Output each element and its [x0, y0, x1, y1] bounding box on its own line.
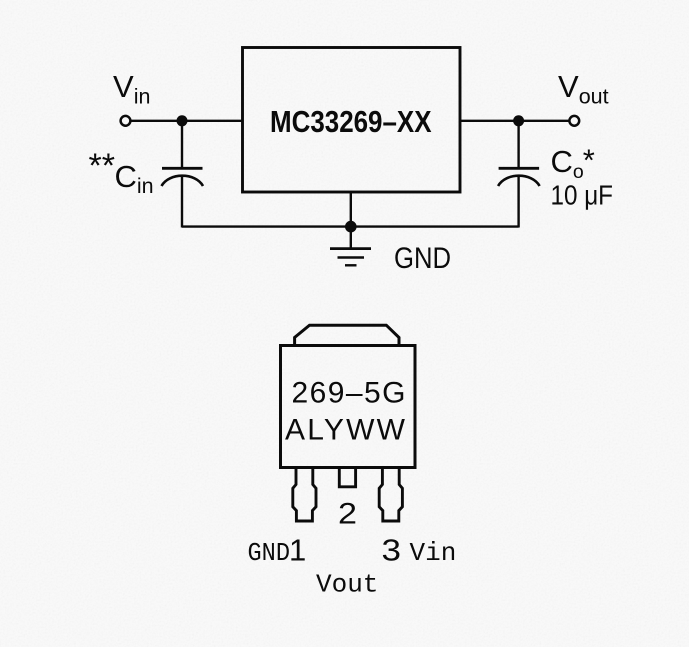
svg-text:1: 1	[289, 533, 306, 568]
wire regulator ground pin down	[350, 192, 352, 228]
svg-text:GND: GND	[248, 538, 291, 568]
node Vin input terminal	[121, 116, 131, 126]
wire Co to ground rail	[517, 176, 519, 228]
wire ground node to ground symbol	[350, 227, 352, 248]
svg-text:Vin: Vin	[410, 538, 457, 568]
svg-text:3: 3	[382, 533, 402, 568]
junction ground node	[345, 221, 357, 233]
junction input node	[177, 115, 188, 126]
wire Cin to ground rail	[181, 176, 183, 228]
junction output node	[513, 115, 524, 126]
pin 2 lead Vout	[339, 468, 355, 487]
wire input terminal to regulator input	[131, 120, 243, 122]
capacitor Co	[498, 168, 539, 186]
svg-text:MC33269–XX: MC33269–XX	[270, 104, 432, 139]
svg-text:10 μF: 10 μF	[551, 180, 614, 211]
ground symbol	[330, 249, 371, 266]
svg-text:Vout: Vout	[316, 570, 378, 600]
svg-text:Co*: Co*	[551, 143, 595, 184]
wire output node down to Co	[517, 121, 519, 167]
svg-text:ALYWW: ALYWW	[285, 413, 406, 446]
package body outline	[281, 346, 416, 468]
capacitor Cin	[162, 168, 204, 186]
node Vout output terminal	[569, 116, 579, 126]
package tab	[295, 325, 399, 345]
pin 1 lead GND	[293, 468, 316, 521]
wire regulator output to output terminal	[460, 120, 569, 122]
svg-text:**: **	[89, 147, 115, 185]
wire input node down to Cin	[181, 121, 183, 167]
regulator U1 MC33269-XX box	[243, 48, 461, 193]
svg-text:GND: GND	[394, 242, 451, 275]
pin 3 lead Vin	[379, 468, 402, 521]
svg-text:2: 2	[338, 498, 357, 531]
wire ground rail	[182, 225, 519, 227]
